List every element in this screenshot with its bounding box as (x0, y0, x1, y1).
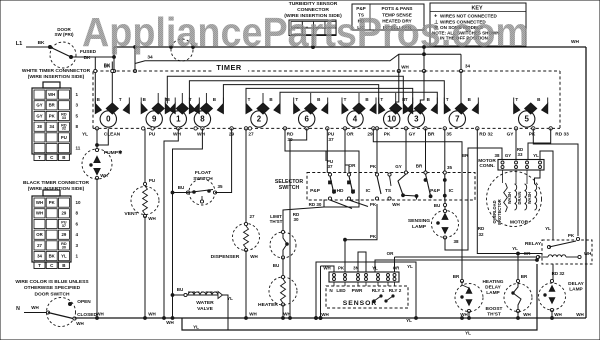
timer cam contact 10 (379, 97, 413, 127)
timer cam contact 5 (514, 97, 548, 127)
motor conn labels (495, 147, 540, 158)
svg-text:CONN.: CONN. (479, 163, 494, 169)
svg-text:SW (PRI): SW (PRI) (54, 32, 74, 37)
motor connector strip (498, 160, 544, 171)
svg-text:WH: WH (148, 216, 156, 221)
label YL bus right (465, 331, 471, 336)
svg-text:TH'ST: TH'ST (487, 312, 501, 318)
label YL valve (227, 296, 233, 301)
svg-text:BLACK TIMER CONNECTOR: BLACK TIMER CONNECTOR (23, 180, 90, 186)
label RD 32 vertical (478, 226, 485, 237)
wire HD output diag (349, 200, 368, 207)
svg-text:6: 6 (304, 115, 309, 124)
svg-text:CLOSED: CLOSED (77, 312, 97, 318)
watermark AppliancePartsPros.com (82, 9, 529, 55)
wire limit to heater (282, 258, 284, 278)
label WH on drop (401, 65, 409, 70)
svg-text:DOOR SWITCH: DOOR SWITCH (34, 292, 70, 298)
svg-text:29: 29 (367, 132, 373, 138)
svg-text:VALVE: VALVE (197, 306, 213, 312)
svg-text:34: 34 (465, 64, 471, 69)
svg-text:WIRE COLOR IS BLUE UNLESS: WIRE COLOR IS BLUE UNLESS (15, 279, 89, 285)
svg-text:T: T (295, 97, 298, 102)
relay coil (0, 0, 591, 259)
timer cam contact 1 (165, 97, 199, 127)
svg-text:BR: BR (49, 103, 55, 108)
label PK above IC (370, 164, 377, 169)
svg-text:34: 34 (147, 55, 153, 61)
legend box P&P abbreviations (352, 4, 424, 30)
label 34 on drop (465, 64, 471, 69)
motor conn label (478, 158, 496, 169)
svg-text:35: 35 (217, 184, 223, 189)
svg-text:PU: PU (149, 178, 155, 183)
svg-text:SENSOR: SENSOR (343, 300, 378, 307)
svg-text:BU: BU (273, 263, 280, 268)
wire relay to delay lamp (552, 264, 554, 281)
svg-text:WH: WH (576, 312, 584, 317)
svg-text:(WIRE INSERTION SIDE): (WIRE INSERTION SIDE) (28, 186, 85, 192)
svg-text:IC: IC (449, 188, 454, 194)
svg-text:WH: WH (31, 305, 39, 310)
svg-text:HD: HD (337, 188, 344, 194)
relay contact (547, 233, 579, 249)
label YL right (545, 226, 551, 231)
selector solid box (324, 151, 359, 207)
wire center drop to timer (422, 46, 425, 73)
svg-text:GY: GY (409, 132, 417, 138)
timer cam contact 2 (246, 97, 280, 127)
float switch (186, 179, 216, 205)
svg-text:PU: PU (149, 132, 156, 138)
svg-text:OR: OR (349, 163, 357, 168)
svg-text:WH: WH (571, 39, 579, 45)
wire PU37 to selector (326, 128, 328, 173)
svg-text:OPEN: OPEN (77, 299, 91, 305)
heating delay lamp label (482, 279, 503, 296)
black timer connector label (23, 180, 90, 192)
svg-text:WH: WH (401, 65, 409, 70)
label BK at timer feed (104, 63, 111, 68)
label GY selector (395, 164, 402, 169)
svg-text:RD 32: RD 32 (479, 132, 493, 138)
label OR sensor (387, 251, 395, 256)
svg-text:RD 30: RD 30 (309, 202, 322, 207)
wire sensor YL net (375, 259, 538, 272)
label WH under heating lamp (460, 312, 468, 317)
svg-text:WASH: WASH (507, 192, 512, 204)
dispenser solenoid (211, 222, 260, 260)
label WH right end (576, 312, 584, 317)
svg-text:RLY 2: RLY 2 (389, 288, 402, 293)
timer cam contact 7 (444, 97, 478, 127)
label WH under boost (523, 312, 531, 317)
svg-text:34: 34 (49, 124, 54, 129)
wire WH drop 6 (290, 128, 307, 318)
svg-text:YL: YL (545, 226, 551, 231)
wire float right to timer 29 (215, 128, 232, 192)
label PK below IC (370, 202, 377, 207)
svg-text:T: T (38, 263, 41, 268)
svg-text:29: 29 (62, 211, 67, 216)
wire BK drop to timer (112, 47, 115, 73)
wire 35 drop (443, 128, 446, 174)
svg-text:DELAY: DELAY (485, 285, 501, 291)
sensor strip stubs (334, 282, 395, 286)
timer cam contact 9 (141, 97, 175, 127)
label WH below TS (392, 202, 400, 207)
junction turbidity drop (312, 46, 315, 49)
svg-text:BK: BK (38, 40, 45, 46)
black timer connector (32, 190, 81, 269)
sensor label (343, 300, 378, 307)
wire PU to vent (144, 128, 146, 184)
svg-text:38: 38 (37, 124, 42, 129)
svg-text:2: 2 (257, 115, 262, 124)
svg-text:LAMP: LAMP (486, 290, 499, 296)
label WH top right (571, 39, 579, 45)
label WH sensor (321, 312, 329, 317)
svg-text:LAMP: LAMP (412, 224, 427, 230)
svg-text:10: 10 (76, 200, 82, 205)
timer cam contact 4 (342, 97, 376, 127)
timer bus feed B (189, 81, 444, 104)
svg-text:PU: PU (328, 132, 335, 138)
svg-text:YL: YL (61, 254, 67, 259)
wire 34 drop to timer (459, 54, 462, 72)
wire turbidity to bus (312, 36, 314, 48)
svg-text:1: 1 (176, 115, 181, 124)
svg-text:RD 33: RD 33 (555, 132, 569, 138)
wire P&P output diag (330, 200, 352, 209)
sensor dashed box (326, 286, 408, 308)
svg-text:YL: YL (512, 246, 518, 251)
svg-text:BR: BR (462, 153, 469, 158)
label 34 top (147, 55, 153, 61)
svg-text:0: 0 (106, 115, 111, 124)
timer feed 0 left (94, 57, 97, 104)
wire delay lamp to bus (551, 310, 553, 318)
wire BR to boost (517, 252, 520, 281)
svg-text:WH: WH (321, 312, 329, 317)
timer bus feed E (280, 92, 437, 103)
svg-text:P&P: P&P (430, 188, 440, 194)
selector contact 35 (443, 174, 454, 200)
svg-text:WH: WH (249, 312, 257, 317)
svg-text:P&P: P&P (310, 188, 320, 194)
timer feed 3 (420, 71, 424, 103)
svg-text:OR: OR (524, 251, 532, 256)
wire door switch to bus (71, 56, 114, 58)
svg-text:37: 37 (62, 224, 66, 228)
label BU limit (273, 263, 280, 268)
svg-text:WH: WH (36, 200, 43, 205)
svg-text:PU: PU (61, 135, 67, 140)
svg-text:37: 37 (328, 137, 334, 143)
svg-text:29: 29 (62, 232, 67, 237)
svg-text:PUMP✱: PUMP✱ (104, 150, 123, 156)
label BK inside timer (104, 64, 111, 69)
svg-text:WH: WH (48, 92, 55, 97)
svg-text:32: 32 (478, 232, 484, 237)
svg-text:7: 7 (455, 115, 460, 124)
svg-text:33: 33 (518, 152, 523, 157)
svg-text:30: 30 (293, 217, 299, 222)
svg-text:30: 30 (62, 245, 66, 249)
svg-text:38: 38 (453, 239, 459, 244)
label OR selector (349, 163, 357, 168)
svg-text:WH: WH (96, 312, 104, 317)
wire N to door switch (24, 312, 48, 314)
wire GY drop (404, 128, 407, 174)
svg-text:WH: WH (523, 312, 531, 317)
svg-text:32: 32 (62, 127, 66, 131)
svg-text:BK: BK (49, 254, 56, 259)
svg-text:PK: PK (49, 200, 56, 205)
svg-text:5: 5 (524, 115, 529, 124)
wire vent to bottom bus (144, 216, 146, 318)
svg-text:WH: WH (554, 312, 562, 317)
timer box (93, 71, 560, 128)
sensor outer box (316, 262, 416, 318)
svg-text:GY: GY (395, 164, 402, 169)
label BU float (178, 185, 185, 190)
svg-text:WH: WH (36, 211, 43, 216)
boost label (486, 306, 503, 318)
svg-text:10: 10 (387, 115, 396, 124)
YL bus (182, 264, 537, 330)
wire GY to motor conn (515, 128, 517, 159)
timer terminal junctions (95, 127, 552, 130)
timer diamond stems (158, 93, 396, 103)
sensor connector strip (329, 272, 399, 282)
svg-text:35: 35 (446, 132, 452, 138)
timer bus feed D (246, 88, 413, 103)
svg-text:PK: PK (529, 132, 536, 138)
selector contact HD (337, 173, 355, 200)
relay dashed box (542, 240, 592, 264)
sensor relay contacts (373, 295, 394, 302)
timer feed 10 (396, 71, 399, 104)
label BR boost (521, 274, 528, 279)
selector contact P&P (310, 173, 335, 200)
svg-text:BR: BR (521, 274, 528, 279)
wire PK to relay (533, 128, 578, 236)
svg-text:BR: BR (416, 164, 423, 169)
svg-text:WATER: WATER (196, 300, 214, 306)
timer feed 7 (460, 71, 462, 104)
svg-text:RD: RD (287, 132, 294, 138)
svg-text:PK: PK (338, 266, 345, 271)
svg-text:BU: BU (177, 287, 184, 292)
svg-text:LAMP: LAMP (569, 287, 582, 293)
svg-text:WH: WH (283, 312, 291, 317)
white timer connector (32, 82, 81, 161)
svg-text:T: T (446, 97, 449, 102)
selector contact IC (366, 173, 381, 200)
door switch secondary (46, 298, 97, 327)
timer cam contact 6 (294, 97, 328, 127)
wire dispenser to bus (245, 250, 247, 318)
timer bus feed A (167, 76, 403, 103)
label BR selector (416, 164, 423, 169)
svg-text:WHITE TIMER CONNNECTOR: WHITE TIMER CONNNECTOR (22, 68, 91, 74)
svg-text:37: 37 (327, 164, 333, 169)
svg-text:WH: WH (148, 312, 156, 317)
svg-text:YL: YL (533, 153, 539, 158)
wire PK to selector (376, 128, 378, 173)
label RD 30 limit (293, 212, 300, 222)
svg-text:HEATER: HEATER (258, 302, 278, 308)
wire PK route from selector (344, 204, 377, 241)
svg-text:9: 9 (152, 115, 157, 124)
svg-text:AppliancePartsPros.com: AppliancePartsPros.com (82, 9, 529, 55)
svg-text:BK: BK (84, 55, 91, 61)
turbidity sensor connector label (284, 1, 342, 19)
label 35 float (217, 184, 223, 189)
svg-text:CLEAN: CLEAN (104, 132, 121, 138)
label OR relay (524, 251, 532, 256)
wire 27 to dispenser (245, 128, 247, 224)
wire sensor PK up (344, 240, 346, 272)
selector contact TS (385, 173, 391, 200)
svg-text:TIMER: TIMER (216, 63, 242, 72)
wire top bus BK (114, 46, 586, 48)
wire YL to pump (96, 128, 98, 150)
svg-text:TH'ST: TH'ST (270, 219, 283, 224)
svg-text:BR: BR (428, 132, 435, 138)
float switch label (193, 170, 213, 182)
label WH dispenser (250, 254, 258, 259)
wire heating lamp to bus (468, 311, 470, 318)
wire sensing lamp to motor conn 38 (445, 148, 502, 250)
wire WH drop 1 (164, 128, 178, 318)
label WH below vent (148, 216, 156, 221)
timer output labels (82, 132, 569, 144)
sensing lamp (432, 209, 459, 239)
svg-text:WH: WH (173, 132, 181, 138)
sensor pin labels (329, 288, 401, 293)
svg-text:4: 4 (353, 115, 358, 124)
svg-text:(WIRE INSERTION SIDE): (WIRE INSERTION SIDE) (28, 74, 85, 80)
label BU valve (177, 287, 184, 292)
label BR heating (453, 153, 469, 279)
svg-text:33: 33 (62, 116, 66, 120)
svg-text:YL: YL (465, 331, 471, 336)
svg-text:8: 8 (200, 115, 205, 124)
svg-text:TURBIDITY SENSOR: TURBIDITY SENSOR (289, 1, 338, 7)
timer cam contact 8 (189, 97, 223, 127)
svg-text:WH: WH (392, 202, 400, 207)
timer bus feed C (223, 85, 378, 104)
wire RD32 long drop (477, 128, 542, 253)
wire float left (171, 191, 188, 194)
svg-text:PWR: PWR (352, 288, 363, 293)
wire selector to sensing lamp (443, 200, 446, 212)
label BU sensing (434, 203, 441, 208)
wire RD30 to selector (285, 128, 326, 151)
label 38 sensing (453, 239, 459, 244)
wire selector to limit (282, 210, 284, 232)
svg-text:34: 34 (37, 254, 42, 259)
svg-text:LED: LED (336, 288, 346, 293)
node N (16, 305, 39, 312)
vent solenoid (124, 182, 159, 217)
WH labels on bus (96, 312, 291, 326)
label WH under delay lamp (554, 312, 562, 317)
svg-text:38: 38 (495, 153, 500, 158)
label WH pump wire (100, 173, 108, 178)
label RD 30 below selector (309, 202, 322, 207)
wire WH drop to timer (397, 54, 400, 72)
svg-text:SENSING: SENSING (408, 218, 430, 224)
water valve (184, 292, 223, 313)
wire RD33 to motor conn (528, 128, 551, 159)
svg-text:T: T (515, 97, 518, 102)
label FUSED BK (80, 49, 97, 61)
svg-text:27: 27 (37, 243, 42, 248)
door switch primary (fused) (49, 27, 77, 68)
wire BR to heating delay lamp (373, 128, 462, 281)
svg-text:GY: GY (505, 153, 511, 158)
svg-text:MOTOR: MOTOR (510, 220, 529, 226)
label 35 selector (447, 165, 453, 170)
svg-text:BU: BU (434, 203, 441, 208)
timer cam contact 0 (95, 97, 129, 127)
svg-text:PK: PK (568, 233, 575, 238)
bus junction dots (96, 317, 554, 320)
boost thermostat (504, 279, 532, 312)
svg-text:VENT: VENT (124, 211, 137, 217)
svg-text:T: T (344, 97, 347, 102)
svg-text:T: T (380, 97, 383, 102)
wire heater to bus (282, 305, 284, 319)
svg-text:IC: IC (366, 188, 371, 194)
motor (487, 172, 542, 227)
svg-text:BOOST: BOOST (486, 306, 503, 312)
svg-text:SWITCH: SWITCH (279, 185, 300, 191)
bottom WH bus (75, 317, 587, 319)
svg-text:27: 27 (248, 132, 254, 138)
wire 34 bus (135, 54, 461, 63)
svg-text:WASH: WASH (527, 192, 532, 204)
label TIMER (212, 63, 248, 72)
wire sensor 3N stub (358, 252, 366, 272)
wire sensor OR (394, 257, 396, 272)
svg-text:GY: GY (36, 113, 42, 118)
relay label (525, 241, 542, 247)
svg-text:WH: WH (250, 254, 258, 259)
svg-text:GY: GY (36, 103, 42, 108)
sensor terminal labels (323, 264, 413, 271)
svg-text:RD: RD (478, 226, 485, 231)
timer cam contact 3 (403, 97, 437, 127)
svg-text:T: T (248, 97, 251, 102)
motor feed wires (503, 170, 541, 184)
wire WH drop 8 (173, 128, 203, 318)
selector switch dashed box (307, 173, 475, 201)
wire BR drop (424, 128, 427, 174)
svg-text:RELAY: RELAY (525, 241, 542, 247)
svg-text:T: T (119, 97, 122, 102)
svg-text:WH: WH (166, 320, 174, 325)
svg-text:L1: L1 (16, 41, 23, 47)
wire CLEAN to pump (96, 128, 109, 146)
key box (430, 3, 526, 46)
svg-text:BU: BU (178, 185, 185, 190)
wire WH sensor left (321, 266, 335, 318)
delay lamp label (568, 281, 584, 293)
